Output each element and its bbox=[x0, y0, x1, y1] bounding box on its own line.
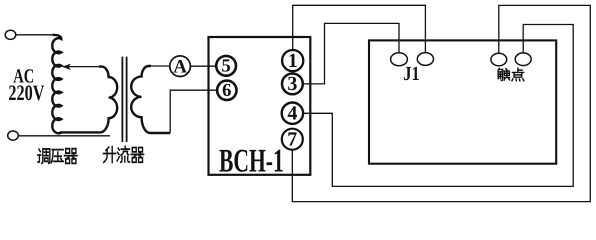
svg-text:220V: 220V bbox=[8, 80, 44, 105]
svg-text:A: A bbox=[173, 56, 187, 77]
svg-text:7: 7 bbox=[287, 129, 297, 151]
svg-text:J1: J1 bbox=[403, 63, 419, 85]
svg-text:6: 6 bbox=[222, 81, 231, 101]
svg-text:1: 1 bbox=[288, 50, 298, 72]
svg-text:5: 5 bbox=[221, 57, 230, 77]
svg-text:4: 4 bbox=[287, 103, 297, 125]
svg-text:3: 3 bbox=[287, 73, 297, 95]
svg-text:BCH-1: BCH-1 bbox=[219, 143, 284, 179]
